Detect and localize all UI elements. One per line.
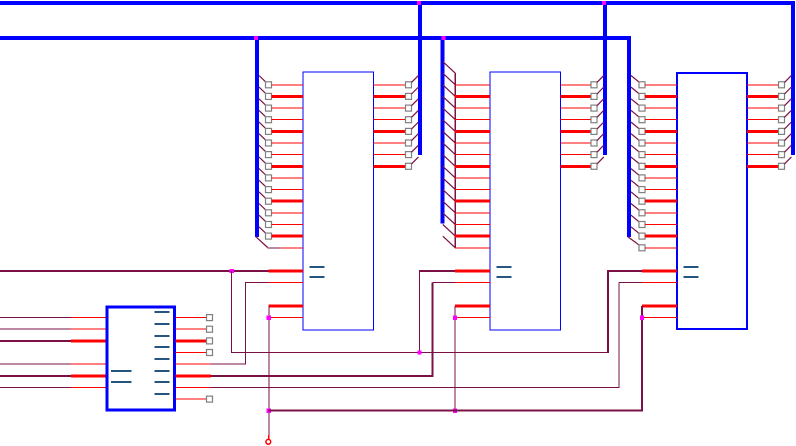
U3 right pin Q3 bus entry diagonal	[597, 110, 604, 117]
wire net WR U4 pin stub	[642, 270, 677, 273]
wire U1 right pin Y3 stub	[176, 352, 207, 353]
U3 right pin Q2 bus entry diagonal	[597, 99, 604, 106]
U4 left pin D9 wire	[645, 189, 677, 190]
wire net E1 segment (row 25 right)	[211, 364, 246, 365]
wire net WR U4 lead	[607, 270, 642, 272]
wire U1 left pin A3 (dark segment)	[0, 364, 71, 365]
U4 left pin D7 terminal	[639, 163, 645, 169]
vertical bus drop to U2 left (from B2)	[255, 36, 259, 237]
U2 left pin D5 wire	[272, 143, 304, 144]
U2 right pin Q6 wire	[374, 154, 406, 155]
U2 right pin Q7 wire	[374, 165, 406, 168]
U3 left pin D13 wire	[455, 235, 490, 238]
U3 left pin D8 bus entry diagonal	[443, 166, 456, 178]
U4 left pin D0 terminal	[639, 82, 645, 88]
U2 left pin D12 bus entry diagonal	[259, 215, 266, 222]
U2 left pin D7 wire	[272, 165, 304, 168]
U2 left pin D6 wire	[272, 154, 304, 155]
U4 right pin Q0 terminal	[779, 82, 785, 88]
wire U4 pin3 stub	[642, 305, 677, 308]
U3 right pin Q0 terminal	[591, 82, 597, 88]
U4 right pin Q1 bus entry diagonal	[785, 87, 792, 94]
U4 right pin Q4 terminal	[779, 128, 785, 134]
wire U1 left pin A1 (dark segment)	[0, 329, 71, 330]
vertical bus drop to U4 left (from B2)	[627, 36, 631, 237]
U1 pin label right 3	[155, 335, 170, 337]
U4 right pin Q4 wire	[747, 130, 779, 133]
U1 pin label right 7	[155, 381, 170, 383]
U1 right pin Y7 terminal	[207, 396, 213, 402]
U3 left pin D5 bus entry diagonal	[443, 131, 456, 143]
U2 right pin Q3 bus entry diagonal	[412, 110, 419, 117]
wire net WR rise to U4 pin1	[607, 271, 609, 353]
U4 left pin D12 bus entry diagonal	[631, 215, 639, 222]
U2 left pin D9 terminal	[266, 187, 272, 193]
U2 left pin D11 wire	[272, 212, 304, 213]
U2 left pin D12 terminal	[266, 222, 272, 228]
wire U2 pin2 lead (dark)	[245, 282, 269, 283]
U1 right pin Y3 terminal	[207, 350, 213, 356]
U4 left pin D11 wire	[645, 212, 677, 213]
U2 left pin D6 bus entry diagonal	[259, 145, 266, 152]
U2 left pin D2 bus entry diagonal	[259, 99, 266, 106]
U3 left pin D7 wire	[455, 165, 490, 168]
U4 left pin D12 wire	[645, 224, 677, 225]
U2 right pin Q1 bus entry diagonal	[412, 87, 419, 94]
U4 left pin D8 wire	[645, 177, 677, 178]
vertical bus drop to U3 left (from B2)	[441, 36, 445, 224]
wire U1 left pin A0 (dark segment)	[0, 317, 71, 318]
U4 left pin D13 terminal	[639, 233, 645, 239]
wire U1 left pin A5 (dark segment)	[0, 387, 71, 388]
U2 right pin Q5 bus entry diagonal	[412, 134, 419, 141]
U4 left pin D9 terminal	[639, 187, 645, 193]
U4 right pin Q5 bus entry diagonal	[785, 134, 792, 141]
U2 right pin Q1 wire	[374, 95, 406, 98]
U4 left pin D0 bus entry diagonal	[631, 76, 639, 83]
node off-page connector (red ring)	[266, 439, 271, 444]
U4 right pin Q2 wire	[747, 108, 779, 109]
U3 right pin Q6 terminal	[591, 152, 597, 158]
junction U4 pin4	[640, 315, 644, 319]
junction B1/U2-right bus	[417, 1, 421, 5]
wire U3 pin4 stub	[455, 317, 491, 318]
wire U1 left pin A2 stub	[71, 339, 106, 342]
U3 left pin D12 bus entry diagonal	[443, 213, 456, 225]
wire net LE horizontal (row 29)	[268, 410, 643, 412]
U4 right pin Q2 bus entry diagonal	[785, 99, 792, 106]
U2 pin label EN	[310, 266, 325, 268]
wire U4 pin2 lead (dark)	[619, 282, 642, 283]
U2 right pin Q4 terminal	[406, 128, 412, 134]
junction U2 pin4	[267, 315, 271, 319]
U4 right pin Q7 terminal	[779, 163, 785, 169]
U3 right pin Q4 wire	[561, 130, 592, 133]
U2 right pin Q7 bus entry diagonal	[412, 157, 419, 164]
U2 left pin 15 wire (dark segment)	[268, 247, 282, 248]
U3 left pin D3 bus entry diagonal	[443, 108, 456, 120]
wire net WR U2 pin stub	[269, 270, 303, 273]
wire U4 pin2 stub	[642, 282, 677, 283]
U4 left pin D2 bus entry diagonal	[631, 99, 639, 106]
U3 left pin D12 wire	[455, 224, 490, 225]
U3 right pin Q3 terminal	[591, 117, 597, 123]
U3 left pin D2 bus entry diagonal	[443, 97, 456, 109]
U2 right pin Q2 terminal	[406, 105, 412, 111]
IC U3 body (latch)	[490, 72, 561, 330]
junction B1/U3-right bus	[602, 1, 606, 5]
IC U1 body (decoder, bottom left)	[107, 307, 175, 410]
U1 pin label right 5	[155, 358, 170, 360]
U3 right pin Q6 wire	[561, 154, 592, 155]
U2 right pin Q0 wire	[374, 84, 406, 85]
U4 left pin D10 bus entry diagonal	[631, 192, 639, 199]
U2 right pin Q2 wire	[374, 108, 406, 109]
U3 right pin Q5 wire	[561, 143, 592, 144]
wire net WR horizontal run (row 24)	[231, 352, 609, 353]
U2 left pin 15 bus entry diagonal (long)	[256, 237, 268, 248]
U3 right pin Q4 bus entry diagonal	[597, 122, 604, 129]
U3 right pin Q4 terminal	[591, 128, 597, 134]
U3 pin label EN	[497, 266, 512, 268]
U2 right pin Q3 wire	[374, 119, 406, 120]
wire U1 right pin Y2 stub	[176, 339, 207, 342]
U4 right pin Q4 bus entry diagonal	[785, 122, 792, 129]
U2 right pin Q6 bus entry diagonal	[412, 145, 419, 152]
U2 left pin D3 terminal	[266, 117, 272, 123]
U3 right pin Q7 bus entry diagonal	[597, 157, 604, 164]
wire U1 left pin A2 (dark segment)	[0, 340, 71, 342]
U2 left pin D5 terminal	[266, 140, 272, 146]
U4 left pin D8 bus entry diagonal	[631, 169, 639, 176]
U2 right pin Q5 wire	[374, 143, 406, 144]
U1 pin label left A4	[111, 370, 132, 372]
U2 left pin D1 terminal	[266, 93, 272, 99]
U3 right pin Q1 wire	[561, 95, 592, 98]
U3 left pin D11 wire	[455, 212, 490, 213]
U1 pin label right 2	[155, 323, 170, 325]
U3 right pin Q2 terminal	[591, 105, 597, 111]
U4 left pin D10 terminal	[639, 198, 645, 204]
U2 left pin D11 terminal	[266, 210, 272, 216]
wire net E2 horizontal (row 26)	[211, 375, 434, 377]
U2 left pin 15 wire (red segment)	[281, 247, 303, 248]
bus B2 (second horizontal data bus)	[0, 36, 631, 40]
U2 left pin D7 bus entry diagonal	[259, 157, 266, 164]
U4 right pin Q3 bus entry diagonal	[785, 110, 792, 117]
U4 right pin Q6 terminal	[779, 152, 785, 158]
U3 left pin D3 wire	[455, 119, 490, 120]
U2 left pin D13 wire	[272, 235, 304, 238]
U2 left pin D8 bus entry diagonal	[259, 169, 266, 176]
U2 left pin D10 terminal	[266, 198, 272, 204]
U3 right pin Q3 wire	[561, 119, 592, 120]
U1 right pin Y1 terminal	[207, 326, 213, 332]
U3 right pin Q0 bus entry diagonal	[597, 75, 604, 82]
U4 left pin D1 bus entry diagonal	[631, 87, 639, 94]
U2 right pin Q7 terminal	[406, 163, 412, 169]
U3 left pin D0 wire	[455, 84, 490, 85]
U2 left pin D13 bus entry diagonal	[259, 227, 266, 234]
U3 right pin Q6 bus entry diagonal	[597, 145, 604, 152]
U4 left pin D11 bus entry diagonal	[631, 204, 639, 211]
U4 left pin D1 terminal	[639, 93, 645, 99]
U2 left pin D1 bus entry diagonal	[259, 87, 266, 94]
U2 left pin D11 bus entry diagonal	[259, 204, 266, 211]
U1 right pin Y2 terminal	[207, 338, 213, 344]
U4 left pin D8 terminal	[639, 175, 645, 181]
U4 left pin D7 wire	[645, 165, 677, 168]
U4 right pin Q0 wire	[747, 84, 779, 85]
U4 left pin D3 terminal	[639, 117, 645, 123]
wire U1 left pin A5 stub	[71, 387, 106, 388]
U1 pin label right 4	[155, 346, 170, 348]
U2 right pin Q4 wire	[374, 130, 406, 133]
U3 right pin Q5 bus entry diagonal	[597, 134, 604, 141]
wire U1 left pin A0 stub	[71, 317, 106, 318]
U4 left pin D6 wire	[645, 154, 677, 155]
U3 left pin D5 wire	[455, 143, 490, 144]
U3 left pin D4 wire	[455, 130, 490, 133]
U4 right pin Q7 bus entry diagonal	[785, 157, 792, 164]
U3 left pin D8 wire	[455, 177, 490, 178]
U2 left pin D3 bus entry diagonal	[259, 110, 266, 117]
U4 right pin Q1 terminal	[779, 93, 785, 99]
U3 right pin Q2 wire	[561, 108, 592, 109]
junction U3 pin4	[453, 315, 457, 319]
wire U3 pin2 lead (dark)	[433, 282, 456, 283]
wire U1 left pin A4 stub	[71, 374, 106, 377]
U3 left bus ripper rail	[455, 73, 456, 248]
U2 left pin D3 wire	[272, 119, 304, 120]
op IC U2 body (latch)	[303, 72, 374, 330]
junction net WR / drop to row line	[230, 269, 234, 273]
wire U1 right pin Y5 stub	[176, 374, 212, 377]
U4 left pin D5 terminal	[639, 140, 645, 146]
U4 pin label EN	[684, 266, 699, 268]
U4 left pin D4 wire	[645, 130, 677, 133]
junction U3 drop / row29	[453, 409, 457, 413]
wire net WR U3 pin stub	[455, 270, 490, 273]
U4 left pin D11 terminal	[639, 210, 645, 216]
U2 left pin D0 terminal	[266, 82, 272, 88]
U2 left pin D8 wire	[272, 177, 304, 178]
U4 left pin D0 wire	[645, 84, 677, 85]
U3 left pin D13 bus entry diagonal	[443, 225, 456, 237]
U4 right pin Q6 wire	[747, 154, 779, 155]
wire net WR drop to U3 pin1	[419, 271, 420, 353]
U2 left pin D8 terminal	[266, 175, 272, 181]
U2 right pin Q1 terminal	[406, 93, 412, 99]
U2 left pin D10 wire	[272, 200, 304, 203]
U4 right pin Q1 wire	[747, 95, 779, 98]
U4 left pin D1 wire	[645, 95, 677, 98]
wire U1 right pin Y0 stub	[176, 317, 207, 318]
IC U4 body (latch)	[677, 73, 747, 329]
U3 left pin D7 bus entry diagonal	[443, 155, 456, 167]
wire net WR vertical drop at x232	[231, 271, 232, 353]
wire U1 left pin A4 (dark segment)	[0, 375, 71, 377]
U3 left pin D10 wire	[455, 200, 490, 203]
U2 right pin Q3 terminal	[406, 117, 412, 123]
U4 left pin D2 wire	[645, 108, 677, 109]
U4 left pin D7 bus entry diagonal	[631, 157, 639, 164]
U2 left pin D6 terminal	[266, 152, 272, 158]
U4 left pin D4 terminal	[639, 128, 645, 134]
U2 left pin D4 bus entry diagonal	[259, 122, 266, 129]
U3 left pin D9 wire	[455, 189, 490, 190]
U2 right pin Q6 terminal	[406, 152, 412, 158]
U3 left pin D14 bus entry diagonal	[443, 236, 456, 248]
wire U3 pin3 stub	[455, 305, 490, 308]
U4 pin label CLK	[684, 276, 699, 278]
U4 right pin Q6 bus entry diagonal	[785, 145, 792, 152]
U4 right pin Q5 wire	[747, 143, 779, 144]
U3 left pin D9 bus entry diagonal	[443, 178, 456, 190]
U2 left pin D9 wire	[272, 189, 304, 190]
U2 pin label CLK	[310, 276, 325, 278]
U3 right pin Q0 wire	[561, 84, 592, 85]
vertical bus drop to U2 right (from B1)	[418, 1, 422, 155]
U2 left pin D0 bus entry diagonal	[259, 76, 266, 83]
vertical bus drop to U3 right (from B1)	[603, 1, 607, 155]
U2 left pin D1 wire	[272, 95, 304, 98]
U4 left pin D4 bus entry diagonal	[631, 122, 639, 129]
wire U3 pin2 vertical drop	[432, 283, 434, 376]
wire net WR left segment (to page edge)	[0, 270, 269, 272]
U1 right pin Y0 terminal	[207, 315, 213, 321]
U1 pin label left A5	[111, 381, 132, 383]
U2 left pin D2 wire	[272, 108, 304, 109]
U4 left pin D6 bus entry diagonal	[631, 145, 639, 152]
U3 left pin D2 wire	[455, 108, 490, 109]
wire U1 right pin Y1 stub	[176, 329, 207, 330]
U4 left pin D10 wire	[645, 200, 677, 203]
U2 right pin Q0 bus entry diagonal	[412, 75, 419, 82]
U4 right pin Q3 wire	[747, 119, 779, 120]
U4 left pin 15 bus entry diagonal (long)	[628, 237, 640, 246]
U3 left pin D4 bus entry diagonal	[443, 120, 456, 132]
vertical bus drop to U4 right (from B1)	[791, 1, 795, 155]
wire net WR U3 lead	[419, 270, 455, 272]
U3 left pin D14 wire	[455, 247, 490, 248]
wire U1 right pin Y7 stub	[176, 399, 207, 400]
U4 left pin D13 bus entry diagonal	[631, 227, 639, 234]
wire U3 pin2 stub	[455, 282, 490, 283]
U2 left pin D7 terminal	[266, 163, 272, 169]
U4 left pin D9 bus entry diagonal	[631, 180, 639, 187]
U2 left pin D4 terminal	[266, 128, 272, 134]
junction B2/U2-left bus	[254, 36, 258, 40]
U2 left pin D4 wire	[272, 130, 304, 133]
U2 right pin Q4 bus entry diagonal	[412, 122, 419, 129]
U2 left pin D2 terminal	[266, 105, 272, 111]
U4 left pin D3 bus entry diagonal	[631, 110, 639, 117]
junction U2 drop / row29	[267, 409, 271, 413]
U3 right pin Q7 wire	[561, 165, 592, 168]
U3 left pin D1 bus entry diagonal	[443, 85, 456, 97]
U4 left pin D5 wire	[645, 143, 677, 144]
U4 right pin Q7 wire	[747, 165, 779, 168]
U2 right pin Q5 terminal	[406, 140, 412, 146]
U2 left pin D5 bus entry diagonal	[259, 134, 266, 141]
U3 left pin D10 bus entry diagonal	[443, 190, 456, 202]
wire U4 pin2 vertical drop	[619, 283, 620, 388]
wire U2 pin2 stub	[269, 282, 303, 283]
U4 left pin D12 terminal	[639, 222, 645, 228]
U2 left pin D10 bus entry diagonal	[259, 192, 266, 199]
wire off-page stub (red)	[268, 435, 269, 440]
wire U2 pin2 vertical drop	[245, 283, 246, 365]
U4 right pin Q0 bus entry diagonal	[785, 75, 792, 82]
U4 left pin 15 wire	[645, 247, 677, 248]
U3 right pin Q7 terminal	[591, 163, 597, 169]
U3 left bus entry diagonal (top)	[443, 62, 456, 74]
U4 left pin D5 bus entry diagonal	[631, 134, 639, 141]
U4 left pin D6 terminal	[639, 152, 645, 158]
U4 left pin D3 wire	[645, 119, 677, 120]
U3 right pin Q1 bus entry diagonal	[597, 87, 604, 94]
U4 left pin D13 wire	[645, 235, 677, 238]
U3 left pin D11 bus entry diagonal	[443, 201, 456, 213]
U3 left pin D6 wire	[455, 154, 490, 155]
U1 pin label right 1	[155, 311, 170, 313]
U2 right pin Q2 bus entry diagonal	[412, 99, 419, 106]
U4 left pin 15 terminal	[639, 245, 645, 251]
U2 left pin D12 wire	[272, 224, 304, 225]
wire U1 left pin A1 stub	[71, 329, 106, 330]
U1 pin label right 8	[155, 393, 170, 395]
U2 left pin D13 terminal	[266, 233, 272, 239]
U3 right pin Q5 terminal	[591, 140, 597, 146]
wire U3 pin3/4 vertical drop	[455, 306, 456, 411]
U3 left pin D6 bus entry diagonal	[443, 143, 456, 155]
junction net WR / U3 branch	[417, 350, 421, 354]
U3 right pin Q1 terminal	[591, 93, 597, 99]
wire U2 pin3 stub	[268, 305, 303, 308]
wire U2 pin4 stub	[268, 317, 303, 318]
wire U1 right pin Y6 stub	[176, 387, 211, 388]
U3 pin label CLK	[497, 276, 512, 278]
wire U4 pin4 stub	[641, 317, 677, 318]
U4 right pin Q5 terminal	[779, 140, 785, 146]
wire net E3 horizontal (row 27)	[211, 387, 620, 388]
U1 pin label right 6	[155, 370, 170, 372]
wire U2 pin3/4 vertical drop	[268, 306, 269, 435]
U2 left pin D0 wire	[272, 84, 304, 85]
wire U4 pin3/4 vertical drop	[641, 306, 643, 411]
U4 right pin Q3 terminal	[779, 117, 785, 123]
wire U1 right pin Y4 stub	[176, 364, 211, 365]
U2 left pin D9 bus entry diagonal	[259, 180, 266, 187]
U4 left pin D2 terminal	[639, 105, 645, 111]
junction B2/U3-left bus	[441, 36, 445, 40]
U3 left pin D1 wire	[455, 95, 490, 98]
bus B1 (top horizontal data bus)	[0, 1, 795, 5]
U2 right pin Q0 terminal	[406, 82, 412, 88]
wire U1 left pin A3 stub	[71, 364, 106, 365]
U3 left pin D0 bus entry diagonal	[443, 73, 456, 85]
U4 right pin Q2 terminal	[779, 105, 785, 111]
